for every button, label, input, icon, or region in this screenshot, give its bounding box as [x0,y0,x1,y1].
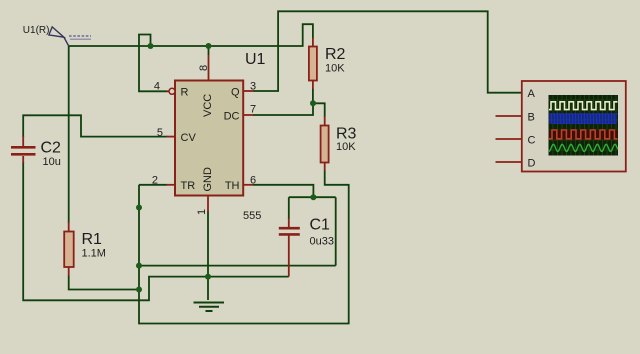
oscilloscope body [522,81,626,172]
scope screen [549,95,619,156]
svg-text:5: 5 [157,127,163,139]
pin 4 inversion bubble [169,88,175,94]
op-amp U1 555 timer body [175,81,243,196]
wire: C1 bottom to ground wire, left to C2 [23,162,289,300]
lead R3 bottom [324,162,326,171]
wire: GND pin1 vertical to ground [207,211,209,300]
wire: TH pin6 to C1 top junction [253,185,313,197]
svg-text:B: B [528,112,535,124]
wire: Q pin3 up and across top to scope A [253,11,522,92]
scope pin B [496,115,522,117]
node: reset bump on VCC rail [148,43,154,49]
capacitor C1 [279,228,300,234]
wire: reset pin4 bump and horizontal [139,35,168,92]
lead R2 bottom [312,80,314,89]
pin stub VCC pin8 [208,55,210,81]
pin stub TR pin2 [167,184,176,186]
svg-text:1.1M: 1.1M [82,248,106,260]
svg-text:10K: 10K [336,141,356,153]
probe dashed wire stub [69,36,91,39]
svg-text:U1: U1 [245,51,266,68]
wire: C1 loop top edge [289,196,336,198]
svg-text:TH: TH [225,180,240,192]
svg-text:TR: TR [181,180,196,192]
svg-text:Q: Q [231,87,240,99]
resistor R1 [64,232,74,268]
junction node dots [136,43,316,293]
wire: VCC pin 8 vertical [208,46,210,55]
node: VCC pin8 on rail [206,43,212,49]
pin stub GND pin1 [207,196,209,213]
scope pin C [496,138,522,140]
svg-text:3: 3 [250,81,256,93]
svg-text:7: 7 [250,104,256,116]
wire: R1 bottom to TR vertical [69,276,139,290]
resistor R2 [309,47,317,81]
wire: R2 bottom to junction [312,89,314,104]
lead R1 bottom [68,267,70,277]
wire: TR pin2 horizontal [139,184,167,186]
svg-text:A: A [528,88,536,100]
node: TR/C1-loop junction [136,263,142,269]
lead R1 top [68,222,70,232]
scope pin D [496,161,522,163]
node: ground wire junction [205,274,211,280]
wire: R3 bottom to right rail down to bottom rail to TR vertical [139,171,349,324]
voltage probe U1(R) [49,27,69,46]
waveform C (red square) [549,130,618,139]
svg-text:D: D [528,158,536,170]
svg-text:U1(R): U1(R) [23,25,50,36]
pin stub TH pin6 [243,184,254,186]
waveform D (green sine) [549,144,618,151]
svg-text:CV: CV [181,132,197,144]
wire: C1 top lead upper (green part) [288,197,290,219]
lead C1 bottom [288,236,290,277]
ground [194,303,225,312]
waveform A (yellow square) [549,102,618,110]
node: R2/R3/DC junction [310,100,316,106]
svg-text:10K: 10K [325,63,345,75]
wire: C1 loop right edge [335,197,337,265]
resistor R3 [321,126,329,163]
node: TR vertical junction [136,205,142,211]
svg-text:C1: C1 [310,217,331,234]
pin stub DC pin7 [243,114,254,116]
svg-text:C2: C2 [41,140,62,157]
svg-text:2: 2 [152,175,158,187]
svg-text:R: R [181,87,189,99]
lead C2 bottom [22,156,24,163]
node: R1 bottom junction [136,287,142,293]
wire: VCC rail from probe corner to R2 top [69,24,313,46]
waveform B (blue dense square) [550,114,618,124]
pin stub Q pin3 [243,90,254,92]
svg-text:4: 4 [154,81,160,93]
svg-text:C: C [528,135,536,147]
svg-text:R1: R1 [82,231,103,248]
wire: probe vertical down to R1 top [68,46,70,223]
svg-text:6: 6 [250,175,256,187]
wire: DC pin7 to R2/R3 junction [253,103,313,115]
pin stub CV pin5 [167,136,176,138]
lead C2 top [22,136,24,146]
lead R2 top [312,38,314,48]
wire: junction to R3 top [313,103,325,117]
node: TH/C1 junction [310,194,316,200]
wire: TR net bottom horizontal to C1 loop [139,265,336,267]
pin stub R pin4 [167,90,169,92]
lead C1 top [288,218,290,227]
svg-text:10u: 10u [43,156,61,168]
capacitor C2 [11,147,36,154]
waveform C underlay [549,130,618,140]
svg-text:8: 8 [198,65,210,71]
svg-text:DC: DC [224,111,240,123]
svg-text:555: 555 [243,210,261,222]
lead R3 top [324,116,326,126]
svg-text:GND: GND [202,167,214,192]
svg-text:R3: R3 [336,126,357,143]
svg-text:1: 1 [196,209,208,215]
svg-text:0u33: 0u33 [310,236,334,248]
svg-text:VCC: VCC [202,94,214,117]
svg-text:R2: R2 [325,46,346,63]
wire: C2 top to CV pin5 [23,115,167,137]
